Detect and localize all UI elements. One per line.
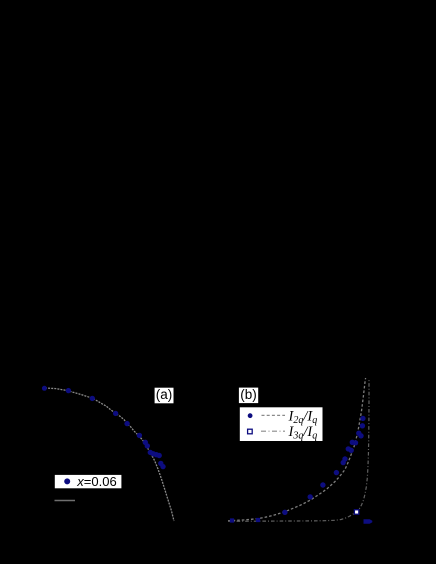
panel (a) legend box <box>55 474 122 489</box>
data point a3 <box>90 396 95 401</box>
legend row 1 dashed line sample <box>262 414 286 416</box>
data point b7 <box>341 460 346 465</box>
svg-text:(a): (a) <box>156 387 173 402</box>
panel (a) solid gray curve <box>45 388 174 521</box>
data point b1 square cap <box>230 518 234 522</box>
data point b16 <box>360 416 365 421</box>
data point a2 <box>66 388 71 393</box>
panel (b) dashed gray curve I2q/Iq <box>228 378 366 521</box>
panel label (b) <box>239 387 258 403</box>
data point a5 <box>124 421 129 426</box>
panel (b) dash-dot gray curve I3q/Iq <box>228 379 369 521</box>
data point a7 <box>143 440 148 445</box>
data point b2 <box>256 518 260 522</box>
data point a9 <box>148 450 153 455</box>
data point b3 <box>282 510 287 515</box>
data point b8 <box>342 456 347 461</box>
data point a12 <box>157 453 162 458</box>
data point a1 <box>42 386 47 391</box>
legend row 2 dash-dot line sample <box>261 430 285 432</box>
panel (a) data points x=0.06 <box>42 386 166 470</box>
data point b2 square cap <box>256 518 260 522</box>
panel (a) legend line sample <box>55 500 76 502</box>
data point a8 <box>145 443 150 448</box>
panel (b) data points I2q/Iq <box>230 416 366 523</box>
data point a13 <box>158 461 163 466</box>
panel (b) legend box <box>240 407 323 441</box>
data point a6 <box>137 433 142 438</box>
panel label (a) <box>155 387 174 403</box>
data point b14 <box>358 433 363 438</box>
data point a10 <box>151 451 156 456</box>
data point b1 <box>230 518 234 522</box>
panel (b) navy blob marker near transition <box>364 519 373 524</box>
data point b10 <box>349 448 354 453</box>
data point b5 <box>320 482 325 487</box>
panel (b) open square data point I3q/Iq <box>354 510 358 514</box>
legend row 2 marker open square <box>248 429 253 434</box>
svg-text:x=0.06: x=0.06 <box>76 474 116 489</box>
data point a11 <box>154 452 159 457</box>
data point b6 <box>334 470 339 475</box>
svg-text:(b): (b) <box>240 387 257 402</box>
data point b13 <box>356 431 361 436</box>
legend row 1 marker filled circle <box>248 413 253 418</box>
data point b11 <box>350 440 355 445</box>
data point b15 <box>360 423 365 428</box>
data point a4 <box>113 411 118 416</box>
data point b12 <box>353 440 358 445</box>
data point b9 <box>346 446 351 451</box>
data point b4 <box>308 494 313 499</box>
legend marker dot <box>64 478 70 484</box>
data point a14 <box>160 464 165 469</box>
